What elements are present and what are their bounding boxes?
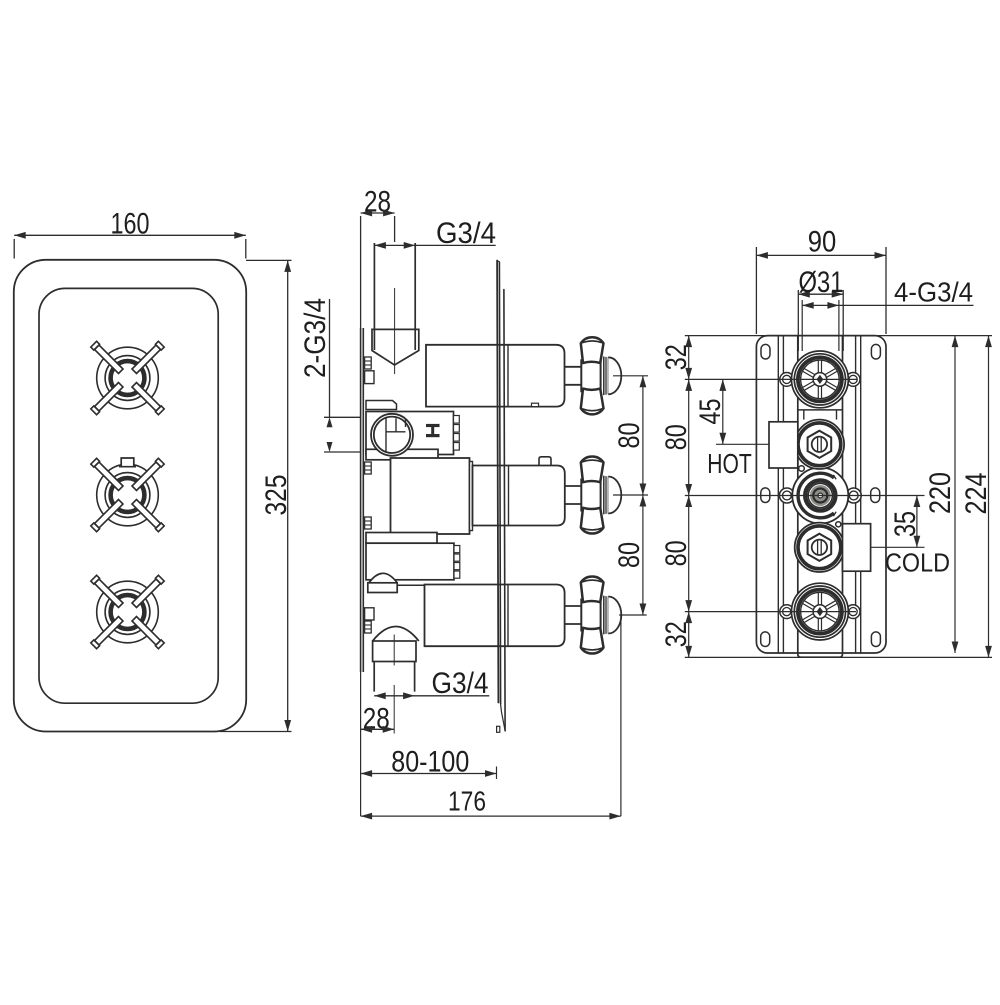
dim 45 line <box>722 379 724 444</box>
dim 4-G3/4 line <box>802 304 973 306</box>
svg-text:80: 80 <box>613 542 646 568</box>
left dim column line <box>688 336 690 658</box>
svg-text:160: 160 <box>111 208 150 241</box>
cartridge knurl <box>454 416 460 424</box>
dim 325 ext top <box>246 259 292 261</box>
plate slot mid-left <box>761 488 770 503</box>
faceplate side edge <box>497 261 498 703</box>
svg-text:224: 224 <box>960 473 993 515</box>
dim 80-100 line <box>361 773 497 775</box>
svg-text:G3/4: G3/4 <box>432 667 489 700</box>
outlet pipe <box>373 662 375 692</box>
svg-text:80: 80 <box>660 424 693 450</box>
wall screw 1 <box>365 357 372 369</box>
ext line top right view <box>685 335 992 337</box>
dim G3/4 bottom line <box>374 695 489 697</box>
svg-text:4-G3/4: 4-G3/4 <box>894 277 973 308</box>
dim 80 middle line <box>642 376 644 615</box>
lower body block <box>366 543 454 580</box>
row line R2 <box>685 495 925 497</box>
svg-text:80: 80 <box>613 423 646 449</box>
COLD leader <box>871 546 925 548</box>
dim 224 line <box>988 336 990 658</box>
dim 90 line <box>756 254 886 256</box>
hex ball detail 2 <box>836 522 841 527</box>
bracket plate upper <box>366 449 438 460</box>
mounting plate <box>756 336 886 653</box>
handle bottom (side view) <box>565 605 582 607</box>
COLD box <box>843 524 871 572</box>
wall screw 2 <box>365 462 372 474</box>
dim dia31 line <box>798 293 843 295</box>
svg-text:HOT: HOT <box>707 448 752 479</box>
top valve inner line <box>507 345 509 407</box>
supply pipe top <box>373 243 375 350</box>
middle valve inner line <box>508 466 510 526</box>
row ext line middle <box>613 494 648 496</box>
handle top (front view) <box>97 347 159 409</box>
dim 220 line <box>954 336 956 653</box>
svg-text:45: 45 <box>694 399 727 425</box>
lower body knurl <box>454 546 460 553</box>
plate slot top-right <box>871 344 880 359</box>
svg-text:32: 32 <box>660 621 693 647</box>
thermostat block <box>391 458 470 534</box>
hex port HOT <box>795 420 844 469</box>
valve column <box>797 336 799 654</box>
row ext line bottom <box>619 614 647 616</box>
top valve body <box>426 345 565 407</box>
connecting line <box>397 584 424 586</box>
ext line bottom right view <box>685 656 992 658</box>
svg-text:176: 176 <box>448 786 486 817</box>
handle middle (front view) <box>97 464 159 526</box>
svg-text:32: 32 <box>660 344 693 370</box>
middle valve body <box>473 466 565 526</box>
dim 28 top line <box>361 212 395 214</box>
dim G3/4 top line <box>374 244 495 246</box>
dim 160 line <box>14 234 246 236</box>
bracket plate lower <box>366 533 437 544</box>
union nut top <box>372 329 419 365</box>
cartridge I glyph <box>426 424 440 427</box>
elbow big dome <box>373 627 419 642</box>
thermostat cap <box>539 457 551 466</box>
inlet boss <box>366 401 397 410</box>
bracket strip right <box>855 336 857 653</box>
svg-text:90: 90 <box>808 226 837 259</box>
wall screw 4 <box>365 621 372 633</box>
side port internals <box>386 418 406 453</box>
hex port COLD <box>795 523 844 572</box>
hex ball detail 1 <box>799 466 805 472</box>
side port circle <box>371 414 413 456</box>
svg-text:80: 80 <box>660 540 693 566</box>
svg-text:2-G3/4: 2-G3/4 <box>299 298 332 378</box>
plate slot top-left <box>761 344 770 359</box>
thermostat step <box>470 462 473 531</box>
elbow small band <box>368 583 397 593</box>
supply pipe top centerline <box>394 288 396 374</box>
handle bottom (front view) <box>97 581 159 643</box>
top valve notch <box>532 403 539 406</box>
cartridge block <box>366 412 454 455</box>
plate slot mid-right <box>871 488 880 503</box>
svg-text:Ø31: Ø31 <box>799 266 844 299</box>
handle top (side view) <box>565 366 582 368</box>
dim 325 ext bottom <box>220 731 292 733</box>
plate slot bottom-left <box>761 632 770 647</box>
HOT box <box>769 422 798 468</box>
row ext line top <box>613 375 648 377</box>
plate slot bottom-right <box>871 632 880 647</box>
dim 28 bottom line <box>361 728 395 730</box>
row line R3 <box>685 611 856 613</box>
dim 35 line <box>916 496 918 548</box>
wall tab lower <box>365 608 374 620</box>
elbow small dome <box>369 573 397 583</box>
dim 2-G3/4 lines <box>329 299 331 417</box>
outlet fitting <box>373 641 416 662</box>
row line R1 <box>685 378 857 380</box>
bottom valve body <box>425 585 565 647</box>
svg-text:220: 220 <box>924 472 957 514</box>
wall plate edge <box>360 328 362 672</box>
handle middle (side view) <box>565 485 582 487</box>
bottom port (spoked) <box>780 605 794 619</box>
svg-text:COLD: COLD <box>885 548 950 578</box>
svg-text:325: 325 <box>260 475 293 516</box>
bracket strip left <box>777 336 779 653</box>
wall screw 3 <box>365 517 372 529</box>
faceplate inner outline <box>39 288 218 703</box>
svg-text:35: 35 <box>889 511 922 537</box>
top port (spoked) <box>780 373 794 387</box>
faceplate outer outline <box>14 260 246 732</box>
column neck lines <box>798 409 843 411</box>
bottom valve inner line <box>507 585 509 647</box>
outlet pipe centerline <box>393 635 395 666</box>
center port (mixer) <box>779 488 794 503</box>
dim 176 line <box>361 815 621 817</box>
dim 325 line <box>287 260 289 731</box>
